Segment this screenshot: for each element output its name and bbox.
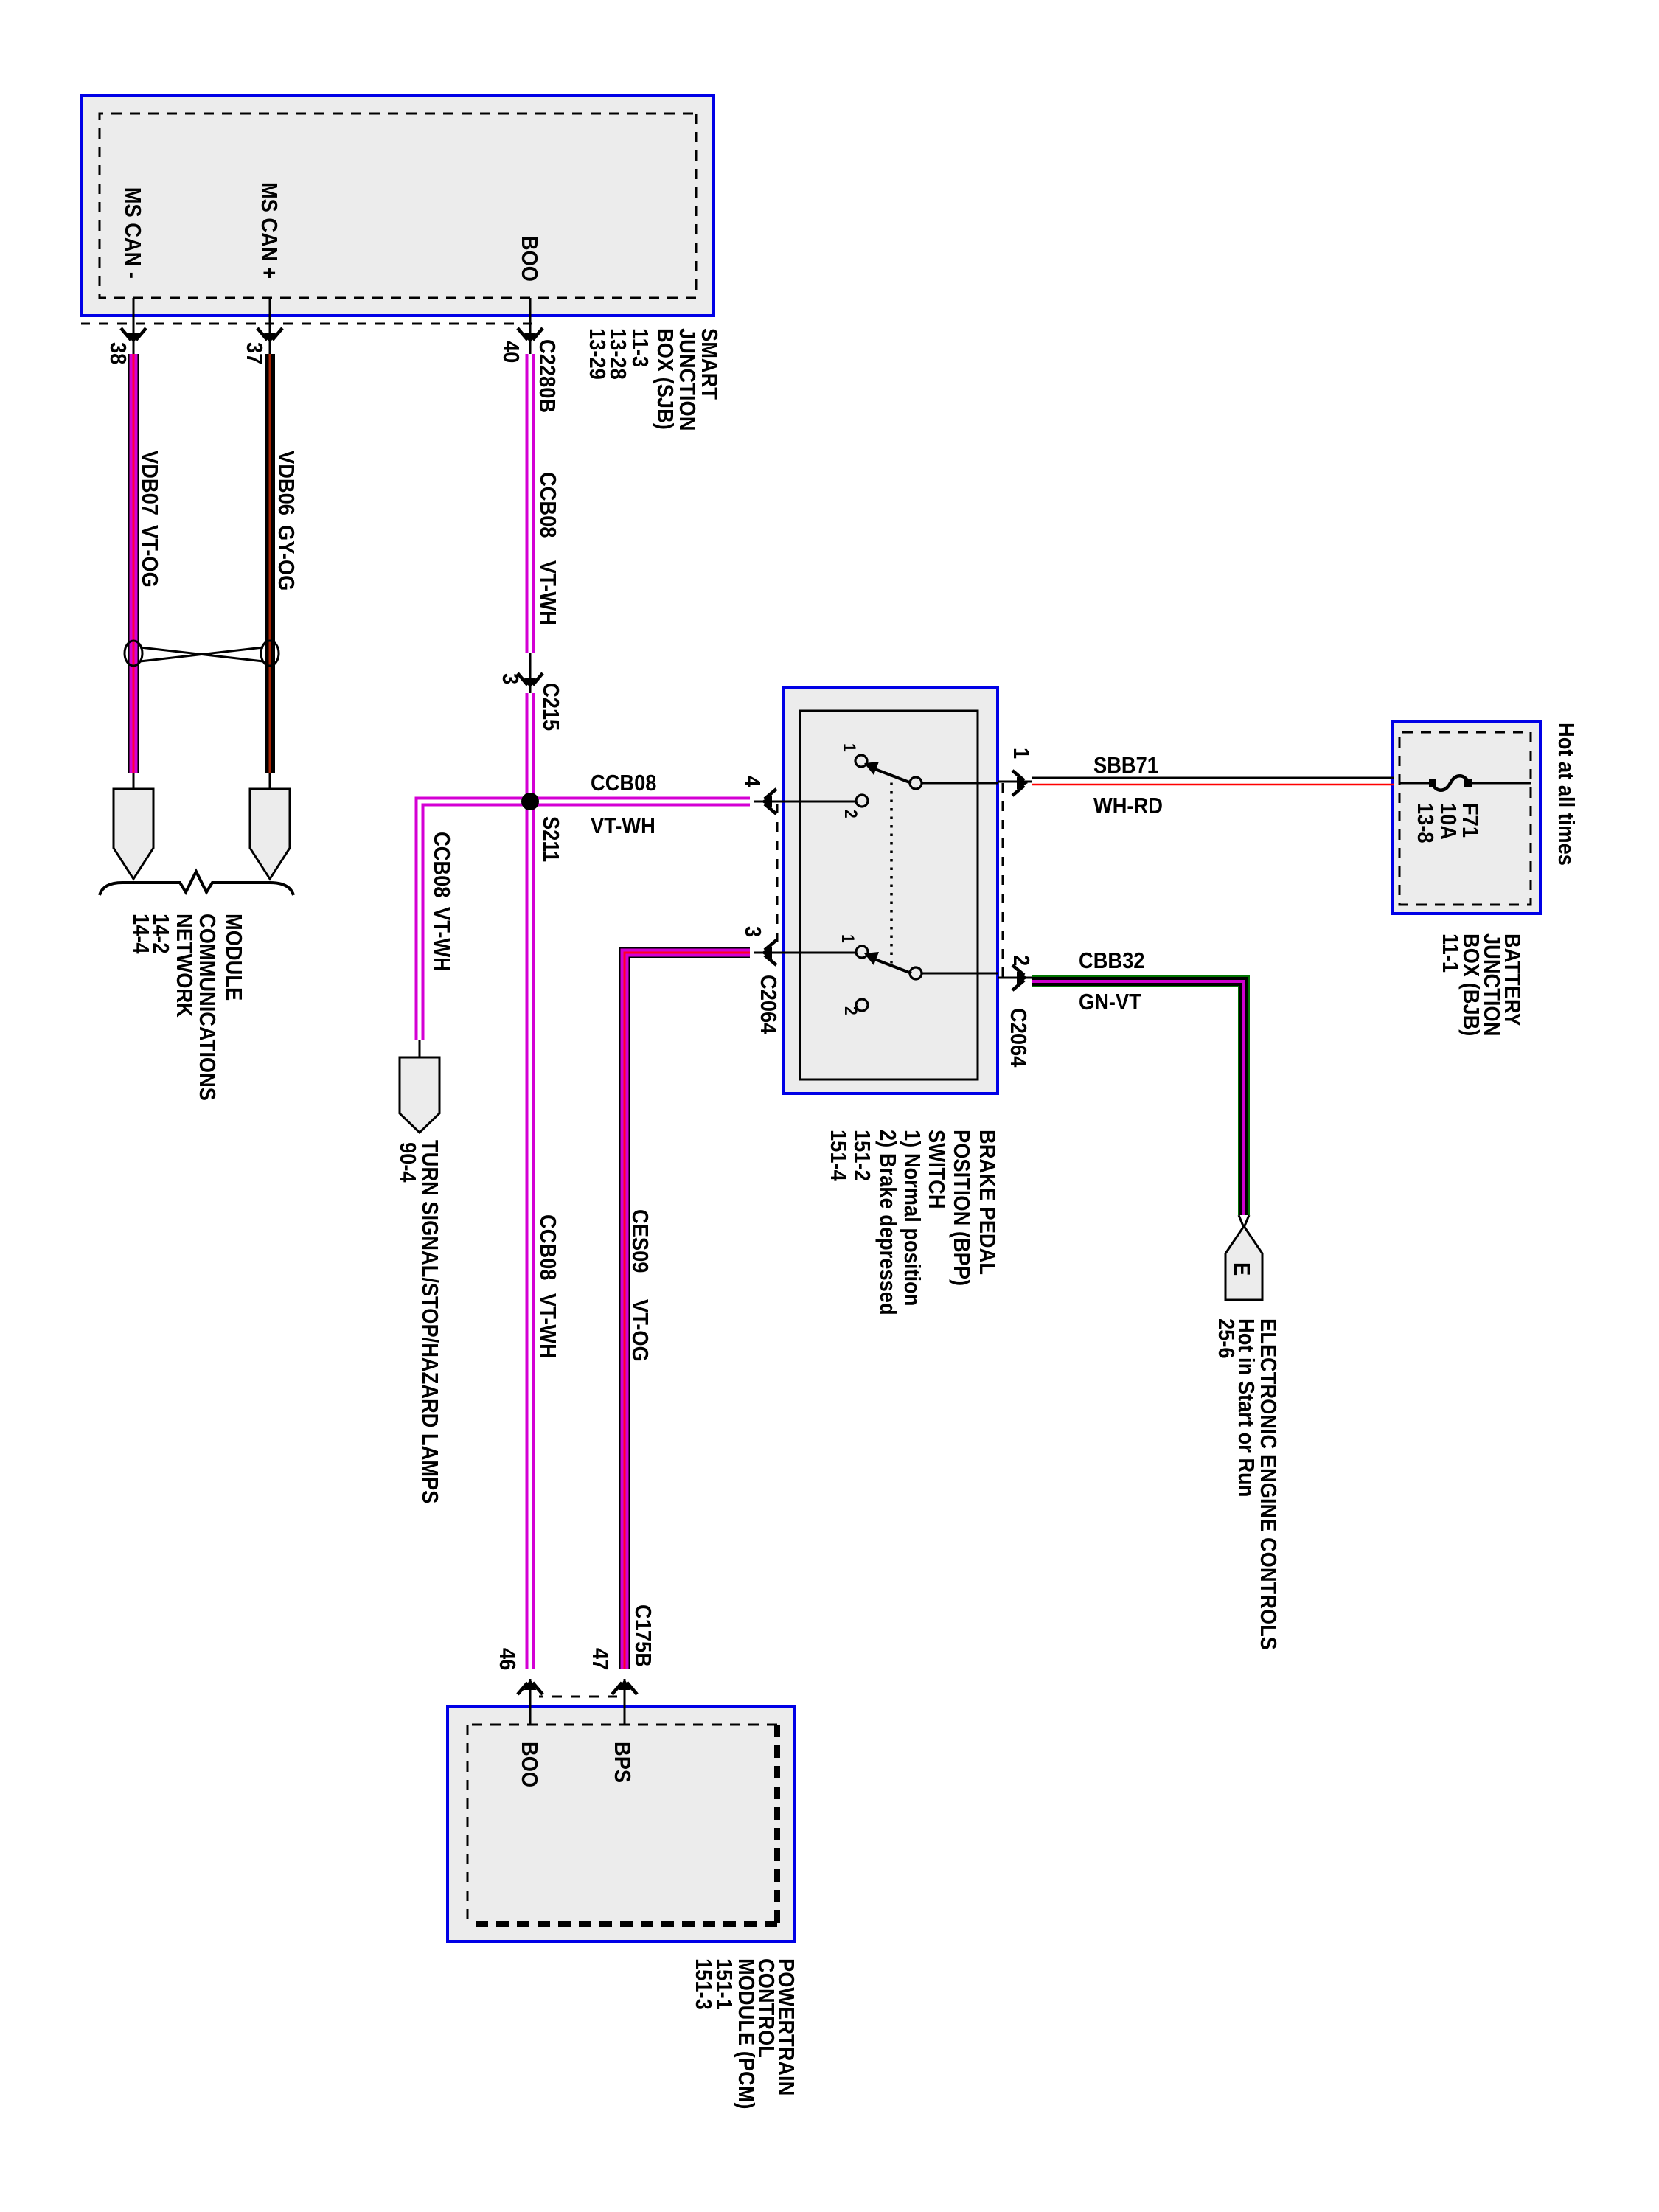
svg-text:2: 2 — [841, 810, 861, 818]
svg-text:BPS: BPS — [610, 1742, 635, 1783]
svg-text:13-8: 13-8 — [1413, 803, 1438, 844]
svg-text:CBB32: CBB32 — [1079, 948, 1144, 973]
arrow PCM pin 46 — [518, 1679, 543, 1694]
wire VDB06 GY-OG stub from SJB pin 37 — [269, 298, 271, 354]
svg-text:CCB08: CCB08 — [591, 771, 656, 796]
svg-text:CCB08: CCB08 — [429, 832, 454, 897]
wire inside BJB with fuse F71 — [1399, 776, 1531, 790]
junction S211 — [521, 793, 539, 810]
wire VDB06 GY-OG (MS CAN +) — [265, 354, 275, 789]
svg-text:SWITCH: SWITCH — [924, 1130, 949, 1209]
wire CBB32 GN-VT from BPP pin 2 to connector E — [998, 978, 1249, 1228]
svg-text:90-4: 90-4 — [395, 1142, 420, 1183]
arrow SJB pin 38 — [121, 328, 146, 344]
svg-text:CES09: CES09 — [627, 1209, 653, 1273]
BPP switch 2 contact 2 — [856, 999, 868, 1011]
arrow C215 pin 3 — [518, 673, 543, 689]
svg-text:14-4: 14-4 — [128, 914, 153, 954]
svg-text:F71: F71 — [1458, 803, 1483, 838]
arrow BPP pin 2 — [1012, 965, 1028, 990]
svg-text:C2280B: C2280B — [535, 339, 560, 413]
svg-text:S211: S211 — [538, 816, 563, 862]
wire VDB07 VT-OG (MS CAN -) — [128, 354, 139, 789]
BPP pin 1 stub — [921, 782, 998, 785]
svg-text:GY-OG: GY-OG — [274, 525, 299, 591]
wire CCB08 VT-WH branch S211 up to BPP pin 4 — [530, 797, 750, 807]
svg-text:11-3: 11-3 — [627, 328, 653, 367]
wire SBB71 WH-RD from BPP pin 1 to BJB — [998, 778, 1394, 785]
wire CCB08 VT-WH branch S211 to turn signal connector — [420, 801, 530, 1057]
connector pentagon MS CAN + (module communications network) — [250, 789, 290, 879]
PCM pin 47 stub — [624, 1679, 626, 1725]
svg-text:3: 3 — [740, 926, 765, 937]
BPP switch 2 contact 1 — [856, 946, 868, 958]
svg-text:2: 2 — [1009, 955, 1034, 966]
svg-text:BOO: BOO — [517, 236, 542, 282]
smart junction box SJB — [81, 96, 714, 316]
connector pentagon MS CAN - (module communications network) — [114, 789, 153, 879]
svg-text:151-4: 151-4 — [826, 1130, 851, 1181]
svg-text:151-2: 151-2 — [849, 1130, 874, 1181]
svg-text:VT-WH: VT-WH — [591, 813, 655, 838]
wire CCB08 VT-WH stub from SJB pin 40 (BOO) — [529, 298, 532, 354]
connector pentagon E electronic engine controls — [1225, 1226, 1262, 1300]
BPP switch 1 contact 2 — [856, 795, 868, 807]
svg-text:10A: 10A — [1436, 803, 1461, 840]
connector pentagon turn signal/stop/hazard lamps 90-4 — [400, 1057, 439, 1133]
arrow BPP pin 4 — [761, 789, 776, 814]
svg-text:37: 37 — [242, 342, 267, 364]
svg-text:1) Normal position: 1) Normal position — [900, 1130, 925, 1306]
brake pedal position switch box — [784, 688, 998, 1093]
wire CCB08 VT-WH segment C215 to PCM pin 46 through S211 — [526, 693, 535, 1669]
svg-text:COMMUNICATIONS: COMMUNICATIONS — [195, 914, 220, 1101]
BPP switch 1 contact 1 — [855, 755, 867, 767]
svg-text:11-1: 11-1 — [1438, 933, 1463, 973]
svg-text:2: 2 — [841, 1006, 861, 1015]
svg-text:GN-VT: GN-VT — [1079, 990, 1141, 1015]
svg-text:1: 1 — [838, 934, 858, 943]
svg-text:MODULE (PCM): MODULE (PCM) — [734, 1958, 759, 2110]
svg-text:TURN SIGNAL/STOP/HAZARD LAMPS: TURN SIGNAL/STOP/HAZARD LAMPS — [417, 1140, 442, 1503]
svg-text:BOO: BOO — [517, 1742, 542, 1787]
BPP pin 2 stub — [921, 973, 998, 975]
svg-text:NETWORK: NETWORK — [172, 914, 197, 1018]
svg-text:SBB71: SBB71 — [1093, 753, 1158, 778]
arrow BPP pin 1 — [1012, 771, 1028, 796]
svg-text:46: 46 — [495, 1648, 520, 1670]
svg-text:1: 1 — [1009, 748, 1034, 759]
svg-text:ELECTRONIC ENGINE CONTROLS: ELECTRONIC ENGINE CONTROLS — [1256, 1318, 1281, 1650]
svg-text:CCB08: CCB08 — [535, 1214, 560, 1280]
arrow SJB pin 40 — [518, 328, 543, 344]
svg-text:SMART: SMART — [697, 328, 722, 400]
battery junction box BJB — [1393, 722, 1540, 914]
connector C2280B dashed face line — [81, 323, 532, 325]
connector C2064 dashed face line left (pins 4,3) — [776, 804, 779, 951]
wire VDB07 VT-OG stub from SJB pin 38 — [133, 298, 135, 354]
svg-text:VT-WH: VT-WH — [535, 560, 560, 625]
svg-text:151-3: 151-3 — [691, 1958, 716, 2010]
svg-text:MS CAN +: MS CAN + — [257, 182, 282, 279]
connector C175B dashed face line — [539, 1696, 617, 1698]
svg-text:MS CAN -: MS CAN - — [120, 187, 145, 279]
svg-text:CCB08: CCB08 — [535, 472, 560, 538]
svg-text:25-6: 25-6 — [1214, 1318, 1239, 1359]
BPP pin 4 stub — [754, 801, 856, 803]
BPP switch 2 common — [910, 967, 922, 979]
svg-text:VT-WH: VT-WH — [535, 1293, 560, 1358]
svg-text:1: 1 — [840, 743, 860, 752]
connector C2064 dashed face line right (pins 1,2) — [1002, 783, 1004, 978]
svg-text:VT-OG: VT-OG — [137, 525, 162, 588]
svg-text:VT-OG: VT-OG — [627, 1299, 653, 1362]
arrow PCM pin 47 — [612, 1679, 637, 1694]
svg-text:40: 40 — [498, 341, 524, 363]
PCM pin 46 stub — [529, 1679, 532, 1725]
svg-text:MODULE: MODULE — [221, 914, 246, 1001]
connector C215 inline gap — [529, 653, 532, 693]
wire CES09 VT-OG from BPP pin 3 to PCM pin 47 — [625, 953, 750, 1669]
svg-text:47: 47 — [588, 1648, 613, 1670]
svg-text:BOX (SJB): BOX (SJB) — [653, 328, 678, 430]
svg-text:BRAKE PEDAL: BRAKE PEDAL — [975, 1130, 1000, 1275]
brace for module communications network — [100, 872, 293, 895]
svg-text:C2064: C2064 — [1006, 1008, 1031, 1068]
BPP switch 1 common — [910, 777, 922, 789]
BPP switch 2 blade — [864, 952, 911, 973]
BPP switch 1 blade — [864, 762, 911, 783]
svg-text:2) Brake depressed: 2) Brake depressed — [875, 1130, 900, 1315]
svg-text:C2064: C2064 — [756, 975, 781, 1034]
svg-text:3: 3 — [498, 673, 523, 684]
svg-text:4: 4 — [740, 776, 765, 787]
BPP mechanical link dotted line — [890, 774, 893, 964]
svg-text:13-29: 13-29 — [585, 328, 610, 380]
svg-text:VDB06: VDB06 — [274, 451, 299, 515]
svg-text:Hot at all times: Hot at all times — [1554, 723, 1579, 866]
svg-text:WH-RD: WH-RD — [1093, 793, 1163, 818]
arrow SJB pin 37 — [257, 328, 282, 344]
svg-text:C215: C215 — [538, 683, 563, 731]
twisted pair symbol — [125, 641, 279, 666]
svg-text:38: 38 — [105, 342, 131, 364]
svg-text:E: E — [1229, 1262, 1254, 1276]
svg-text:VT-WH: VT-WH — [429, 907, 454, 972]
arrow BPP pin 3 — [761, 940, 776, 965]
BPP pin 3 stub — [754, 952, 856, 954]
wire CCB08 VT-WH segment SJB to C215 — [526, 354, 535, 653]
svg-text:JUNCTION: JUNCTION — [675, 328, 700, 431]
svg-text:VDB07: VDB07 — [137, 451, 162, 515]
svg-text:C175B: C175B — [630, 1604, 655, 1667]
powertrain control module PCM box — [448, 1707, 794, 1941]
svg-text:POSITION (BPP): POSITION (BPP) — [949, 1130, 974, 1286]
